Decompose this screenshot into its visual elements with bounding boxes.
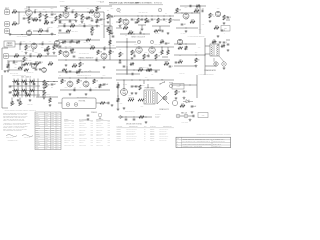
tube V13 <box>42 68 47 73</box>
tube V5B <box>215 11 220 16</box>
label AC <box>159 108 169 111</box>
label trem <box>131 36 145 39</box>
svg-text:220K: 220K <box>34 18 38 20</box>
potentiometer SPEED <box>19 101 23 106</box>
svg-text:1M: 1M <box>21 51 23 53</box>
svg-text:XXX: XXX <box>107 131 110 133</box>
label value <box>53 20 56 22</box>
svg-text:XXXX XXX: XXXX XXX <box>64 130 70 132</box>
tube V10 rectifier <box>121 89 128 96</box>
capacitor C8 <box>84 23 85 27</box>
resistor R89 <box>146 69 151 71</box>
capacitor C55 <box>13 62 18 64</box>
label value <box>65 87 68 89</box>
label symbols <box>91 112 97 114</box>
resistor R74 <box>7 64 9 68</box>
svg-text:XXX: XXX <box>71 138 74 140</box>
wire <box>36 96 58 97</box>
svg-text:000000: 000000 <box>36 136 40 138</box>
wire <box>36 11 58 12</box>
svg-text:470K: 470K <box>191 20 195 22</box>
capacitor C78 <box>66 71 67 74</box>
ground <box>189 119 192 122</box>
svg-text:0000: 0000 <box>51 144 54 146</box>
svg-text:XXX: XXX <box>71 133 74 135</box>
label ch1 values <box>17 36 28 38</box>
svg-text:XXXX X: XXXX X <box>96 131 101 133</box>
svg-text:000: 000 <box>45 142 47 144</box>
label ch2 values2 <box>21 59 32 61</box>
ground <box>79 69 82 72</box>
svg-text:000000: 000000 <box>117 136 121 138</box>
wire <box>58 71 100 72</box>
svg-text:000: 000 <box>45 148 47 150</box>
capacitor C5 <box>71 9 73 13</box>
ground <box>141 28 144 31</box>
svg-text:SYMBOLS: SYMBOLS <box>91 112 97 114</box>
net B+ vertical <box>204 38 206 75</box>
tube V12 <box>54 40 59 45</box>
label value <box>35 9 38 11</box>
svg-text:XXXX XXXX: XXXX XXXX <box>64 145 71 147</box>
svg-text:100K: 100K <box>98 51 102 53</box>
label value <box>51 87 53 89</box>
ground <box>131 92 134 95</box>
ground <box>29 99 32 102</box>
svg-text:1.6V: 1.6V <box>43 9 46 11</box>
pilot lamp DS1 <box>163 96 167 100</box>
connector J4 INPUT <box>4 54 9 58</box>
label voltage callout <box>103 75 106 77</box>
svg-text:250V: 250V <box>51 8 54 10</box>
capacitor C70 <box>59 46 62 47</box>
svg-text:160V: 160V <box>23 41 26 43</box>
mid parts list <box>117 125 175 142</box>
svg-text:90V: 90V <box>59 75 61 77</box>
resistor R30 <box>23 57 28 62</box>
svg-text:XXX: XXX <box>71 127 74 129</box>
ground <box>53 52 56 55</box>
capacitor C9 <box>131 19 136 21</box>
resistor R92 <box>70 49 74 51</box>
ground <box>75 20 78 23</box>
label voltage callout <box>195 52 198 54</box>
resistor R65 <box>138 99 144 101</box>
svg-text:XXXX XXXX: XXXX XXXX <box>79 145 86 147</box>
tube V3B <box>63 51 69 57</box>
resistor R25 <box>190 20 195 24</box>
tube balloon 6 <box>137 40 140 43</box>
svg-text:56K: 56K <box>213 16 215 18</box>
resistor R33 <box>59 50 64 55</box>
svg-text:.045: .045 <box>151 74 154 76</box>
capacitor C20 <box>29 53 32 57</box>
ground <box>219 41 222 44</box>
svg-text:470: 470 <box>161 40 164 42</box>
potentiometer TREBLE 2 <box>11 101 15 106</box>
svg-text:20uF: 20uF <box>129 95 132 97</box>
ground <box>7 70 10 73</box>
svg-text:.1: .1 <box>148 53 149 55</box>
svg-text:50uF: 50uF <box>193 106 197 108</box>
svg-text:240V: 240V <box>103 75 106 77</box>
svg-text:XXXX XXXX: XXXX XXXX <box>96 145 103 147</box>
capacitor C67 <box>135 22 138 23</box>
capacitor C39 <box>108 102 109 105</box>
resistor R59 <box>77 79 82 84</box>
net B+ rail <box>26 6 57 8</box>
svg-text:15K: 15K <box>181 104 184 106</box>
svg-text:000000: 000000 <box>117 130 121 132</box>
ground <box>175 97 178 100</box>
wire <box>174 19 230 21</box>
svg-text:10M .02 1M .02: 10M .02 1M .02 <box>139 12 148 14</box>
capacitor C37 <box>90 87 91 91</box>
wire <box>57 11 104 12</box>
capacitor C58 <box>132 73 133 76</box>
label channel box text <box>7 41 12 44</box>
label chain <box>112 45 114 47</box>
label lower mid <box>89 70 154 76</box>
label value <box>224 33 225 35</box>
label voltage callout <box>59 75 61 77</box>
svg-text:XXXXXXXXXXX: XXXXXXXXXXX <box>126 140 135 142</box>
ground <box>87 118 90 121</box>
label value <box>121 24 124 26</box>
resistor R39 <box>131 50 136 55</box>
resistor R22 <box>194 9 199 13</box>
ground <box>117 108 120 111</box>
tube V11 <box>172 100 177 105</box>
svg-text:RESISTORS: RESISTORS <box>96 119 103 121</box>
svg-text:210V: 210V <box>96 9 99 11</box>
label boost2 <box>89 24 92 26</box>
resistor R73 <box>154 30 159 32</box>
label stage2 voltages <box>65 8 99 11</box>
tube balloon 2 <box>158 8 161 11</box>
svg-text:XXX: XXX <box>90 123 93 125</box>
svg-text:.01: .01 <box>201 8 203 10</box>
label value <box>73 9 75 11</box>
wire <box>205 62 216 66</box>
svg-text:25uF: 25uF <box>105 84 109 86</box>
svg-text:XXX: XXX <box>90 125 93 127</box>
svg-text:0000: 0000 <box>36 131 39 133</box>
svg-text:XXX: XXX <box>107 123 110 125</box>
svg-text:XXX: XXX <box>107 135 110 137</box>
svg-text:5U4GB: 5U4GB <box>123 84 127 86</box>
label drv <box>77 74 91 77</box>
svg-text:100K: 100K <box>35 52 38 54</box>
ground <box>131 57 134 60</box>
svg-text:000000: 000000 <box>117 134 121 136</box>
resistor R60 <box>93 79 98 84</box>
svg-text:60V: 60V <box>165 13 167 15</box>
svg-text:820: 820 <box>61 15 64 17</box>
ground <box>185 30 188 33</box>
svg-text:0000: 0000 <box>51 125 54 127</box>
tube V7B <box>149 47 155 53</box>
svg-text:XXXX X: XXXX X <box>79 142 84 144</box>
resistor R63 <box>139 85 141 90</box>
svg-text:XXXXXXXXXX: XXXXXXXXXX <box>126 134 135 136</box>
label value <box>101 24 104 26</box>
svg-text:220K .02: 220K .02 <box>84 42 89 44</box>
svg-text:0000: 0000 <box>51 113 54 115</box>
resistor R82 <box>24 69 29 71</box>
ground <box>91 33 94 36</box>
label voltage callout <box>159 44 162 46</box>
resistor R78 <box>185 46 187 50</box>
svg-text:INPUT: INPUT <box>5 8 9 10</box>
capacitor C10 <box>141 19 146 21</box>
wire <box>116 69 160 70</box>
parts column 3 <box>96 119 110 147</box>
svg-text:820: 820 <box>59 51 61 53</box>
label v1 voltages <box>24 9 45 12</box>
svg-text:000: 000 <box>36 138 38 140</box>
wire <box>117 82 118 108</box>
svg-text:47K: 47K <box>125 35 127 37</box>
resistor R31 <box>34 62 39 66</box>
capacitor C3 <box>51 14 57 16</box>
resistor R16 <box>137 18 142 23</box>
jack J9 <box>176 114 180 118</box>
svg-text:XXXX X: XXXX X <box>64 121 69 123</box>
svg-text:.02: .02 <box>183 24 185 26</box>
label value <box>21 51 23 53</box>
svg-text:00000: 00000 <box>36 117 40 119</box>
svg-text:220K: 220K <box>176 92 180 94</box>
svg-text:XXXX XXXX: XXXX XXXX <box>79 123 86 125</box>
svg-text:56K: 56K <box>73 64 76 66</box>
svg-text:250K 1M: 250K 1M <box>27 104 32 106</box>
ground <box>195 65 198 68</box>
label mid texts <box>65 46 68 48</box>
label pi values <box>140 67 149 69</box>
svg-text:FOOT SW.: FOOT SW. <box>79 101 86 103</box>
tube V4B <box>101 53 107 59</box>
svg-text:000000: 000000 <box>150 140 154 142</box>
ground <box>25 52 28 55</box>
svg-text:XXX: XXX <box>71 145 74 147</box>
svg-text:460V: 460V <box>145 77 148 79</box>
svg-text:0000: 0000 <box>51 121 54 123</box>
capacitor C73 <box>91 20 94 21</box>
power transformer T1 <box>144 87 155 105</box>
ground <box>39 19 42 22</box>
label e voltages <box>49 41 52 43</box>
svg-text:.047: .047 <box>91 15 94 17</box>
svg-text:XXX: XXX <box>90 140 93 142</box>
resistor R35 <box>97 50 102 55</box>
svg-text:00000: 00000 <box>45 121 49 123</box>
svg-text:1.5K: 1.5K <box>95 87 98 89</box>
sheet number <box>100 1 104 4</box>
wire <box>116 46 174 47</box>
resistor R102 <box>148 69 152 71</box>
parts list table <box>35 112 61 150</box>
svg-text:0000: 0000 <box>36 115 39 117</box>
diode D1 <box>183 100 193 103</box>
capacitor C2 <box>34 9 36 13</box>
svg-text:415V: 415V <box>217 8 220 10</box>
label ch2 bottom <box>26 72 33 74</box>
resistor R4 <box>39 13 44 18</box>
capacitor C4 <box>51 22 56 24</box>
tube V4A <box>123 19 129 25</box>
speaker jack J5 <box>214 58 218 66</box>
wire <box>126 38 128 75</box>
capacitor C42 <box>183 91 188 93</box>
svg-text:STBY: STBY <box>224 28 227 30</box>
resistor R79 <box>49 98 51 103</box>
label value <box>41 47 44 49</box>
svg-text:.02: .02 <box>15 62 17 64</box>
resistor R21 <box>176 8 181 13</box>
wire <box>17 11 26 13</box>
resistor R67 <box>180 104 185 108</box>
svg-text:250K: 250K <box>71 24 75 26</box>
svg-text:XXXX XXXXX: XXXX XXXXX <box>79 138 87 140</box>
svg-text:100K: 100K <box>159 52 162 54</box>
svg-text:GZ34: GZ34 <box>141 85 144 87</box>
svg-text:000000: 000000 <box>36 127 40 129</box>
svg-text:6.8K: 6.8K <box>47 85 50 87</box>
svg-text:.01: .01 <box>95 57 97 59</box>
svg-text:XXXXXXXXXXXX: XXXXXXXXXXXX <box>126 138 136 140</box>
svg-text:XXXX X: XXXX X <box>64 131 69 133</box>
footswitch jack J8 <box>74 103 78 107</box>
svg-text:1.9V: 1.9V <box>87 8 90 10</box>
tube V6B <box>67 81 73 87</box>
tube V5A <box>183 13 189 19</box>
svg-text:.1 250K 100K: .1 250K 100K <box>70 31 78 33</box>
standby box <box>221 26 230 32</box>
svg-text:1M: 1M <box>149 21 151 23</box>
capacitor C12 <box>163 19 168 21</box>
resistor R24 <box>223 15 228 20</box>
wire AC crossover <box>157 92 169 104</box>
capacitor C11 <box>151 19 156 21</box>
ground <box>223 67 226 70</box>
svg-text:XXXX XXXX: XXXX XXXX <box>96 123 103 125</box>
capacitor C44 <box>87 115 90 116</box>
svg-text:10K 1W: 10K 1W <box>128 98 134 100</box>
ground <box>45 20 48 23</box>
capacitor C21 <box>39 62 44 64</box>
capacitor C45 <box>125 119 128 120</box>
svg-text:0000: 0000 <box>36 140 39 142</box>
wire <box>10 34 56 35</box>
svg-text:68K: 68K <box>15 54 18 56</box>
svg-text:XXX: XXX <box>107 121 110 123</box>
svg-text:XXXXXXXXXXX: XXXXXXXXXXX <box>159 136 168 138</box>
wire <box>180 5 206 6</box>
svg-text:0000: 0000 <box>51 136 54 138</box>
label pi lower <box>123 60 126 62</box>
ground <box>85 93 88 96</box>
svg-text:000000: 000000 <box>117 129 121 131</box>
resistor R55 <box>14 94 19 96</box>
wire <box>58 19 76 20</box>
svg-text:000: 000 <box>36 129 38 131</box>
svg-text:470K: 470K <box>76 15 80 17</box>
svg-text:SHEET 1 OF 1: SHEET 1 OF 1 <box>213 146 222 148</box>
ground <box>191 111 194 114</box>
svg-text:00000: 00000 <box>36 142 40 144</box>
resistor R57 <box>45 83 50 88</box>
capacitor C36 <box>73 87 75 91</box>
jack J10 <box>184 114 188 118</box>
svg-text:.1: .1 <box>186 91 187 93</box>
capacitor C34 <box>25 92 28 93</box>
wire <box>58 39 100 40</box>
ground <box>209 20 212 23</box>
capacitor C38 <box>103 84 109 86</box>
label tone mid <box>44 94 51 96</box>
aux box <box>198 113 208 118</box>
chassis symbol <box>98 113 102 118</box>
label value <box>179 55 181 57</box>
svg-text:XXX: XXX <box>107 130 110 132</box>
capacitor C19 <box>41 41 43 45</box>
svg-text:10K .02: 10K .02 <box>155 33 160 35</box>
svg-text:1M 330K 47K: 1M 330K 47K <box>26 72 33 74</box>
svg-text:56K: 56K <box>107 10 109 12</box>
resistor R1 <box>12 10 17 14</box>
potentiometer BASS <box>90 27 95 34</box>
wire <box>116 41 136 42</box>
label pi <box>188 35 205 38</box>
svg-text:68K: 68K <box>13 10 16 12</box>
svg-text:XXXX X: XXXX X <box>96 142 101 144</box>
svg-text:TREMOLO INTENSITY: TREMOLO INTENSITY <box>78 58 93 60</box>
resistor R49 <box>14 80 19 82</box>
resistor R46 <box>195 58 200 63</box>
resistor R51 <box>30 80 35 82</box>
wire <box>2 48 8 70</box>
ground <box>223 22 226 25</box>
ground <box>167 32 170 35</box>
svg-text:000000: 000000 <box>36 144 40 146</box>
wire <box>10 86 44 92</box>
capacitor C7 <box>63 23 66 27</box>
ground <box>43 97 46 100</box>
resistor R83 <box>44 49 48 51</box>
label value <box>61 23 63 25</box>
capacitor C13 <box>140 30 141 34</box>
ground <box>183 97 186 100</box>
wire <box>60 41 76 43</box>
svg-text:0000: 0000 <box>45 113 48 115</box>
label ext spkr <box>182 122 189 124</box>
tube V8 <box>177 39 183 45</box>
svg-text:.001: .001 <box>123 60 126 62</box>
svg-text:XXXXXXXXXXXXX: XXXXXXXXXXXXX <box>126 129 137 131</box>
svg-text:XXXXXXXX: XXXXXXXX <box>159 134 166 136</box>
svg-text:00000: 00000 <box>36 125 40 127</box>
wire <box>2 75 8 108</box>
svg-text:000000: 000000 <box>150 138 154 140</box>
label value <box>33 87 36 89</box>
svg-text:20uF: 20uF <box>120 103 123 105</box>
svg-text:250P: 250P <box>53 14 57 16</box>
label value <box>79 87 81 89</box>
capacitor C33 <box>17 92 20 93</box>
svg-text:250K: 250K <box>65 46 68 48</box>
wire <box>144 80 148 88</box>
